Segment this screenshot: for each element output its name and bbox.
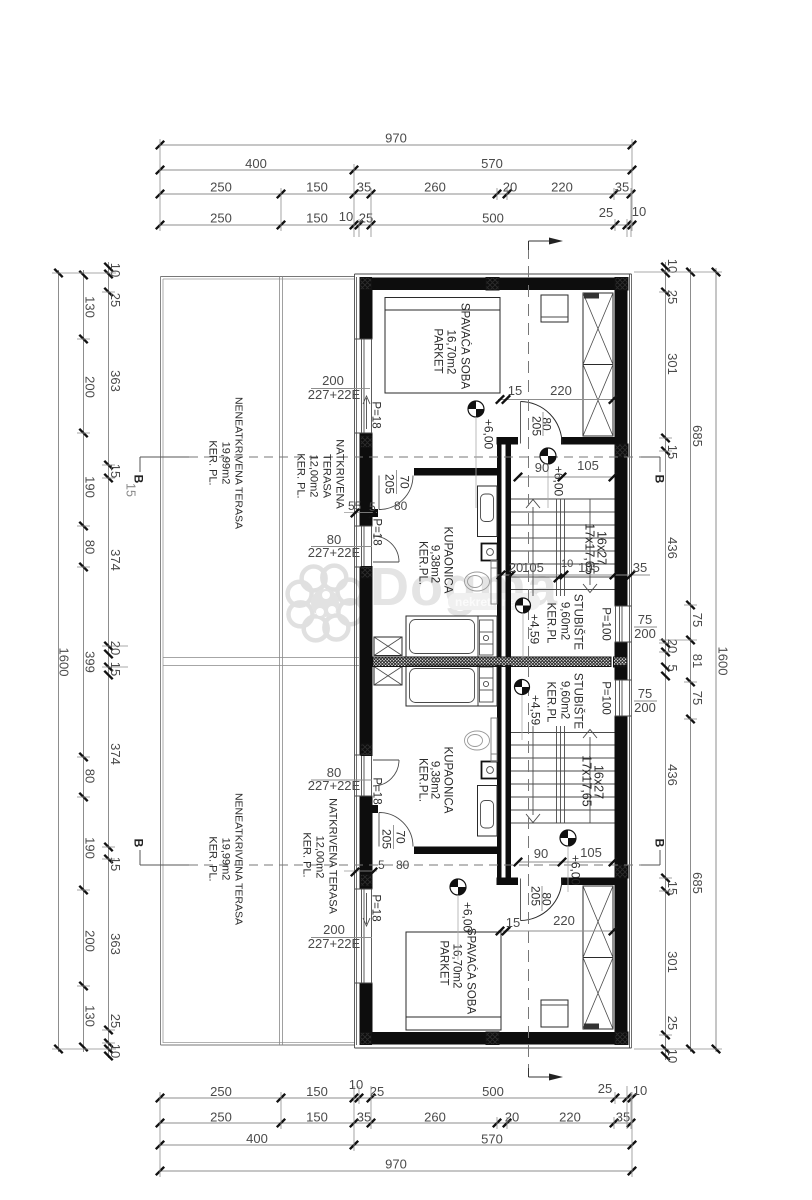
svg-text:KER. PL.: KER. PL. — [295, 453, 307, 498]
label stairwell top — [545, 594, 585, 651]
svg-text:P=100: P=100 — [600, 681, 612, 715]
svg-text:260: 260 — [424, 180, 446, 195]
svg-text:KER. PL.: KER. PL. — [207, 836, 219, 881]
svg-text:80: 80 — [83, 540, 98, 554]
svg-text:9,60m2: 9,60m2 — [559, 602, 571, 640]
section line B-B lower — [132, 839, 667, 865]
top dimension chain row 4 (250/150/10/25/500/25/10) — [156, 204, 646, 229]
svg-text:205: 205 — [380, 829, 394, 849]
svg-text:NENEATKRIVENA TERASA: NENEATKRIVENA TERASA — [233, 793, 245, 925]
svg-text:130: 130 — [83, 1005, 98, 1027]
svg-text:685: 685 — [690, 425, 705, 447]
terrace outline outer — [161, 277, 356, 1046]
bedroom wall dim 15/220 bottom — [496, 913, 617, 935]
svg-text:NENEATKRIVENA TERASA: NENEATKRIVENA TERASA — [233, 397, 245, 529]
svg-text:5: 5 — [665, 664, 680, 671]
svg-text:363: 363 — [108, 370, 123, 392]
svg-text:205: 205 — [530, 416, 544, 436]
svg-text:25: 25 — [108, 1014, 123, 1028]
right dimension chain middle (685/75/81/75/685) — [686, 268, 705, 1053]
svg-text:20: 20 — [108, 641, 123, 655]
label stair count top — [583, 523, 609, 574]
svg-text:+6,00: +6,00 — [461, 902, 475, 933]
svg-text:200: 200 — [634, 626, 656, 641]
svg-text:1600: 1600 — [716, 647, 731, 676]
bottom dimension chain row 2 (250/150/35/260/20/220/35) — [156, 1110, 635, 1128]
svg-text:200: 200 — [323, 922, 345, 937]
svg-text:500: 500 — [482, 1084, 504, 1099]
small dims 55/5/80 top — [344, 499, 408, 518]
label bathroom bottom — [417, 747, 454, 814]
right dimension chain outer (1600) — [712, 268, 731, 1053]
door label 80/205 top — [530, 412, 554, 436]
svg-text:436: 436 — [665, 537, 680, 559]
svg-text:105: 105 — [522, 560, 544, 575]
svg-text:35: 35 — [615, 180, 629, 195]
svg-text:227+22E: 227+22E — [308, 778, 361, 793]
svg-text:55: 55 — [348, 499, 362, 513]
svg-text:436: 436 — [665, 764, 680, 786]
svg-text:399: 399 — [83, 651, 98, 673]
svg-text:10: 10 — [108, 1044, 123, 1058]
stair window label 75/200 top — [634, 612, 657, 641]
label bedroom top — [432, 303, 472, 390]
svg-text:227+22E: 227+22E — [308, 936, 361, 951]
svg-text:190: 190 — [83, 476, 98, 498]
svg-text:685: 685 — [690, 872, 705, 894]
svg-text:16,70m2: 16,70m2 — [451, 944, 463, 989]
right dimension chain inner (10/25/301/15/436/20/5...) — [661, 259, 680, 1063]
svg-text:970: 970 — [385, 131, 407, 146]
watermark flower logo — [288, 566, 363, 641]
svg-text:301: 301 — [665, 353, 680, 375]
svg-text:9,60m2: 9,60m2 — [559, 681, 571, 719]
left dimension chain middle (130/200/190/80/399/80/190/200/130) — [79, 270, 97, 1052]
svg-text:19,99m2: 19,99m2 — [220, 838, 232, 881]
svg-text:200: 200 — [322, 373, 344, 388]
svg-text:90: 90 — [534, 846, 548, 861]
svg-text:220: 220 — [559, 1110, 581, 1125]
bathroom door label 70/205 top — [383, 470, 412, 494]
svg-text:5: 5 — [378, 858, 385, 872]
svg-text:9,38m2: 9,38m2 — [429, 545, 441, 583]
level marker stairs bottom — [515, 680, 543, 741]
terrace divider line — [280, 277, 283, 1046]
svg-text:150: 150 — [306, 1110, 328, 1125]
svg-text:70: 70 — [398, 475, 412, 489]
svg-text:250: 250 — [210, 1084, 232, 1099]
svg-text:25: 25 — [599, 205, 613, 220]
stair dim 20/105/105/35 top — [497, 560, 650, 582]
svg-text:STUBIŠTE: STUBIŠTE — [572, 594, 585, 651]
terrace party wall line — [163, 658, 359, 666]
svg-text:TERASA: TERASA — [321, 454, 333, 499]
svg-text:10: 10 — [633, 1083, 647, 1098]
svg-text:250: 250 — [210, 180, 232, 195]
svg-text:25: 25 — [108, 293, 123, 307]
svg-text:220: 220 — [550, 383, 572, 398]
svg-text:374: 374 — [108, 743, 123, 765]
svg-text:200: 200 — [83, 376, 98, 398]
svg-text:400: 400 — [245, 156, 267, 171]
svg-text:35: 35 — [357, 1110, 371, 1125]
svg-text:P=18: P=18 — [370, 401, 382, 428]
svg-text:10: 10 — [339, 209, 353, 224]
svg-text:+4,59: +4,59 — [528, 614, 542, 645]
svg-text:25: 25 — [598, 1081, 612, 1096]
bathroom door label 70/205 bottom — [380, 825, 408, 849]
svg-text:12,00m2: 12,00m2 — [308, 455, 320, 498]
label stairwell bottom — [545, 673, 585, 730]
stair window label 75/200 bottom — [634, 686, 657, 715]
svg-text:10: 10 — [665, 259, 680, 273]
level marker hall bottom — [560, 830, 583, 892]
svg-text:KER.PL: KER.PL — [545, 603, 557, 645]
svg-text:75: 75 — [690, 613, 705, 627]
hall dim 90/105 bottom — [514, 845, 617, 866]
svg-text:80: 80 — [394, 499, 408, 513]
bottom dimension chain row 4 (970) — [156, 1157, 636, 1176]
svg-text:80: 80 — [396, 858, 410, 872]
level marker hall top — [540, 448, 566, 508]
svg-text:B: B — [132, 475, 146, 484]
bottom dimension chain row 1 (250/150/10/25/500/25/10) — [156, 1077, 647, 1102]
building unit geometry (top) — [355, 274, 632, 661]
bottom chain witness lines — [160, 1086, 632, 1177]
svg-text:KER. PL.: KER. PL. — [207, 440, 219, 485]
svg-text:90: 90 — [535, 460, 549, 475]
svg-text:20: 20 — [503, 180, 517, 195]
svg-text:570: 570 — [481, 1132, 503, 1147]
svg-text:250: 250 — [210, 211, 232, 226]
svg-text:15: 15 — [108, 464, 123, 478]
svg-text:130: 130 — [83, 296, 98, 318]
svg-text:205: 205 — [383, 474, 397, 494]
svg-text:1600: 1600 — [57, 648, 72, 677]
svg-text:10: 10 — [108, 263, 123, 277]
svg-text:NATKRIVENA TERASA: NATKRIVENA TERASA — [327, 798, 339, 914]
svg-text:KUPAONICA: KUPAONICA — [442, 527, 454, 594]
svg-text:STUBIŠTE: STUBIŠTE — [572, 673, 585, 730]
bed bottom unit — [406, 932, 501, 1030]
svg-text:+4,59: +4,59 — [529, 695, 543, 726]
svg-text:KER.PL.: KER.PL. — [417, 541, 429, 585]
svg-text:25: 25 — [665, 1016, 680, 1030]
svg-text:81: 81 — [690, 654, 705, 668]
svg-text:301: 301 — [665, 951, 680, 973]
svg-text:20: 20 — [665, 639, 680, 653]
svg-text:80: 80 — [83, 769, 98, 783]
section line B-B upper — [132, 457, 667, 484]
svg-text:250: 250 — [210, 1110, 232, 1125]
svg-text:KER. PL.: KER. PL. — [301, 832, 313, 877]
svg-text:P=100: P=100 — [600, 607, 612, 641]
svg-text:19,99m2: 19,99m2 — [220, 442, 232, 485]
window label 80/227+22E bottom — [308, 765, 372, 793]
svg-text:25: 25 — [370, 1084, 384, 1099]
svg-text:220: 220 — [553, 913, 575, 928]
top chain witness lines — [160, 139, 632, 237]
door label 80/205 bottom — [529, 886, 554, 911]
svg-text:P=18: P=18 — [371, 518, 383, 545]
svg-text:PARKET: PARKET — [432, 328, 444, 373]
section line A-A vertical — [529, 238, 564, 1081]
svg-text:200: 200 — [634, 700, 656, 715]
small dims 5/80 bottom — [344, 858, 410, 876]
svg-text:35: 35 — [357, 180, 371, 195]
window label 80/227+22E top — [308, 532, 372, 560]
window label 200/227+22E bottom — [308, 922, 372, 951]
svg-text:227+22E: 227+22E — [308, 545, 361, 560]
bottom dimension chain row 3 (400/570) — [156, 1131, 636, 1149]
svg-text:200: 200 — [83, 930, 98, 952]
svg-text:205: 205 — [529, 886, 543, 906]
right chain witness lines — [634, 272, 722, 1049]
svg-text:15: 15 — [124, 483, 138, 497]
svg-text:10: 10 — [349, 1077, 363, 1092]
svg-text:227+22E: 227+22E — [308, 387, 361, 402]
building unit geometry mirrored (bottom) — [355, 661, 632, 1048]
svg-text:105: 105 — [578, 560, 600, 575]
svg-text:P=18: P=18 — [370, 894, 382, 921]
svg-text:SPAVAĆA SOBA: SPAVAĆA SOBA — [465, 928, 478, 1015]
svg-text:10: 10 — [665, 1049, 680, 1063]
svg-text:KER.PL.: KER.PL. — [417, 758, 429, 802]
svg-text:P=18: P=18 — [371, 777, 383, 804]
left chain witness lines — [52, 273, 128, 1049]
svg-text:150: 150 — [306, 1084, 328, 1099]
svg-text:220: 220 — [551, 180, 573, 195]
top dimension chain row 3 (250/150/35/260/20/220/35) — [156, 180, 635, 199]
svg-text:+6,00: +6,00 — [482, 419, 496, 450]
left dimension chain inner (10/25/363/15/374/20...) — [104, 262, 123, 1060]
svg-text:B: B — [653, 839, 667, 848]
svg-text:500: 500 — [482, 211, 504, 226]
top dimension chain row 2 (400/570) — [156, 156, 636, 174]
level marker bedroom top — [468, 401, 496, 508]
svg-text:150: 150 — [306, 180, 328, 195]
svg-text:75: 75 — [638, 612, 652, 627]
svg-text:12,00m2: 12,00m2 — [314, 836, 326, 879]
svg-text:150: 150 — [306, 211, 328, 226]
svg-text:SPAVAĆA SOBA: SPAVAĆA SOBA — [459, 303, 472, 390]
svg-text:20: 20 — [509, 560, 523, 575]
hall dim 90/105 top — [514, 458, 617, 481]
svg-text:970: 970 — [385, 1157, 407, 1172]
top dimension chain row 1 (970) — [156, 131, 636, 150]
svg-text:570: 570 — [481, 156, 503, 171]
svg-text:PARKET: PARKET — [438, 940, 450, 985]
svg-text:15: 15 — [506, 915, 520, 930]
party wall crosshatch band — [373, 657, 628, 667]
bed top unit — [385, 298, 500, 394]
svg-text:10: 10 — [632, 204, 646, 219]
svg-text:260: 260 — [424, 1110, 446, 1125]
svg-text:70: 70 — [394, 830, 408, 844]
svg-text:15: 15 — [508, 383, 522, 398]
svg-text:KUPAONICA: KUPAONICA — [442, 747, 454, 814]
svg-text:363: 363 — [108, 933, 123, 955]
label bathroom top — [417, 527, 454, 594]
svg-text:105: 105 — [580, 845, 602, 860]
label bedroom bottom — [438, 928, 478, 1015]
svg-text:9,38m2: 9,38m2 — [429, 761, 441, 799]
svg-text:35: 35 — [633, 560, 647, 575]
level marker bedroom bottom — [450, 879, 475, 960]
svg-text:15: 15 — [108, 662, 123, 676]
label uncovered terrace bottom — [207, 793, 245, 925]
label uncovered terrace top — [207, 397, 245, 529]
svg-text:15: 15 — [665, 445, 680, 459]
svg-text:75: 75 — [638, 686, 652, 701]
svg-text:17x17,65: 17x17,65 — [580, 755, 594, 806]
svg-text:105: 105 — [577, 458, 599, 473]
window label 200/227+22E top — [308, 373, 370, 402]
level marker stairs top — [516, 598, 542, 660]
svg-text:75: 75 — [690, 691, 705, 705]
bedroom wall dim 15/220 top — [496, 383, 617, 404]
svg-text:16,70m2: 16,70m2 — [445, 330, 457, 375]
svg-text:B: B — [132, 839, 146, 848]
svg-text:NATKRIVENA: NATKRIVENA — [334, 439, 346, 509]
svg-text:190: 190 — [83, 837, 98, 859]
label covered terrace top — [295, 439, 346, 509]
svg-text:KER.PL: KER.PL — [545, 682, 557, 724]
svg-text:35: 35 — [616, 1110, 630, 1125]
svg-text:400: 400 — [246, 1131, 268, 1146]
left dimension chain outer (1600) — [54, 269, 71, 1053]
label stair count bottom — [580, 755, 606, 806]
label covered terrace bottom — [301, 798, 339, 914]
svg-text:10: 10 — [561, 558, 573, 570]
svg-text:B: B — [653, 475, 667, 484]
svg-text:15: 15 — [665, 881, 680, 895]
svg-text:374: 374 — [108, 549, 123, 571]
